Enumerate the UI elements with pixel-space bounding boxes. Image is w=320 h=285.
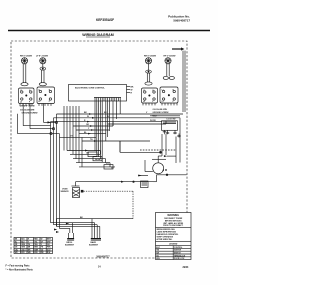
svg-text:#10-32x3/8 GRN: #10-32x3/8 GRN: [153, 109, 168, 111]
svg-text:IGNITOR: IGNITOR: [174, 250, 182, 252]
left wire color table: [14, 238, 53, 255]
svg-text:AFTER SERVICING.: AFTER SERVICING.: [157, 238, 173, 241]
svg-text:WARNING: WARNING: [167, 214, 179, 217]
wire labels small: [70, 112, 156, 141]
surface unit switch 2 (left front): [36, 55, 48, 85]
svg-text:RW: RW: [41, 252, 44, 254]
surface switch block 3: [142, 88, 158, 103]
right vertical drops: [162, 118, 180, 163]
oven sensor component bottom mid: [61, 181, 154, 219]
svg-text:M: M: [165, 169, 167, 172]
svg-text:LOCK SW: LOCK SW: [167, 118, 176, 120]
svg-text:ELEMENT: ELEMENT: [89, 245, 99, 247]
svg-text:LF 8": LF 8": [36, 55, 41, 57]
arrows into table area: [54, 229, 59, 234]
svg-text:ELECTRONIC OVEN CONTROL: ELECTRONIC OVEN CONTROL: [75, 88, 105, 90]
surface unit switch 4 (right front): [163, 55, 175, 79]
svg-text:SENSOR: SENSOR: [61, 191, 70, 193]
svg-text:1250W: 1250W: [26, 55, 32, 57]
svg-text:SWITCH: SWITCH: [174, 253, 181, 255]
svg-text:F = Fast-moving Parts: F = Fast-moving Parts: [6, 265, 31, 268]
surface unit switch 1 (left rear): [20, 55, 32, 85]
small wire arrows: [66, 113, 97, 224]
wires: board pins down: [95, 101, 120, 162]
door lock switch component: [162, 121, 181, 138]
relay cluster mid: [67, 150, 115, 170]
surface switch block 1: [19, 88, 35, 104]
svg-text:GROUND SCREW: GROUND SCREW: [153, 112, 169, 114]
surface switch block 2: [37, 87, 55, 104]
terminal combs under right blocks: [143, 103, 177, 105]
svg-text:BL: BL: [15, 241, 17, 243]
electronic oven control board: [69, 85, 127, 102]
svg-text:KEF355ASF: KEF355ASF: [96, 18, 114, 22]
svg-text:SW: SW: [156, 253, 159, 255]
svg-text:5995408717: 5995408717: [96, 255, 110, 258]
svg-text:L1: L1: [143, 90, 145, 92]
svg-text:R-W: R-W: [47, 252, 51, 254]
bottom long wires: [51, 141, 134, 233]
terminal combs under left blocks: [20, 104, 51, 106]
board side labels: [127, 87, 134, 95]
surface switch block 4: [160, 87, 178, 103]
left horizontals: [18, 104, 60, 135]
motor circle: [145, 155, 176, 174]
warning/legend box: [156, 213, 192, 261]
svg-text:L2: L2: [20, 101, 22, 103]
svg-text:L2: L2: [162, 101, 164, 103]
svg-text:L1: L1: [38, 89, 40, 91]
svg-text:1250W: 1250W: [169, 55, 175, 57]
svg-text:LEGEND: LEGEND: [169, 243, 178, 245]
svg-text:CONTROL: CONTROL: [174, 247, 182, 249]
header rule: [8, 30, 210, 32]
svg-text:DOOR: DOOR: [150, 120, 156, 122]
small p3 box right: [141, 181, 149, 188]
svg-text:DOOR LOCK: DOOR LOCK: [174, 258, 185, 260]
svg-text:#10-32x3/8 GRN: #10-32x3/8 GRN: [20, 110, 35, 112]
central horizontal wires with labels: [51, 106, 184, 167]
svg-text:TERM BLOCK: TERM BLOCK: [174, 255, 186, 257]
svg-text:YEL: YEL: [34, 241, 37, 243]
dashed border: [11, 41, 187, 258]
svg-text:L2: L2: [38, 101, 40, 103]
svg-text:ELEMENT: ELEMENT: [65, 245, 75, 247]
broil element: [65, 233, 75, 247]
svg-text:DK BL: DK BL: [95, 159, 102, 161]
bake element: [89, 233, 101, 247]
svg-text:W: W: [131, 90, 133, 92]
footer notes: [6, 265, 189, 272]
svg-text:29/03: 29/03: [183, 267, 189, 269]
svg-text:5995408717: 5995408717: [173, 19, 190, 23]
left bundle verticals: [51, 114, 60, 229]
pin header: [95, 98, 120, 102]
svg-text:2100W: 2100W: [42, 55, 48, 57]
svg-text:L1: L1: [20, 90, 22, 92]
right side: door area text: [150, 115, 180, 121]
L1 supply arrow top right: [172, 48, 181, 50]
svg-text:L2: L2: [143, 101, 145, 103]
svg-text:MDL: MDL: [156, 258, 160, 260]
svg-text:W: W: [87, 116, 89, 118]
svg-text:1250W: 1250W: [150, 55, 156, 57]
svg-text:L1: L1: [162, 89, 164, 91]
svg-text:PRIOR TO DISCONNECT.: PRIOR TO DISCONNECT.: [163, 225, 184, 227]
svg-text:LBL: LBL: [15, 249, 18, 251]
svg-text:* = Non-Illuminated Parts: * = Non-Illuminated Parts: [6, 269, 34, 272]
svg-text:1250W 8" 2100W: 1250W 8" 2100W: [20, 106, 35, 108]
box bottom edge with junction: [120, 151, 161, 153]
svg-text:LBLU: LBLU: [21, 249, 26, 251]
svg-text:GROUND SCREW: GROUND SCREW: [22, 112, 38, 114]
svg-text:WIRING DIAGRAM: WIRING DIAGRAM: [82, 33, 114, 37]
dashed panel line: [140, 149, 176, 151]
surface unit switch 3 (right rear): [144, 55, 156, 85]
step wire to motor: [138, 174, 187, 182]
svg-text:W: W: [107, 116, 109, 118]
